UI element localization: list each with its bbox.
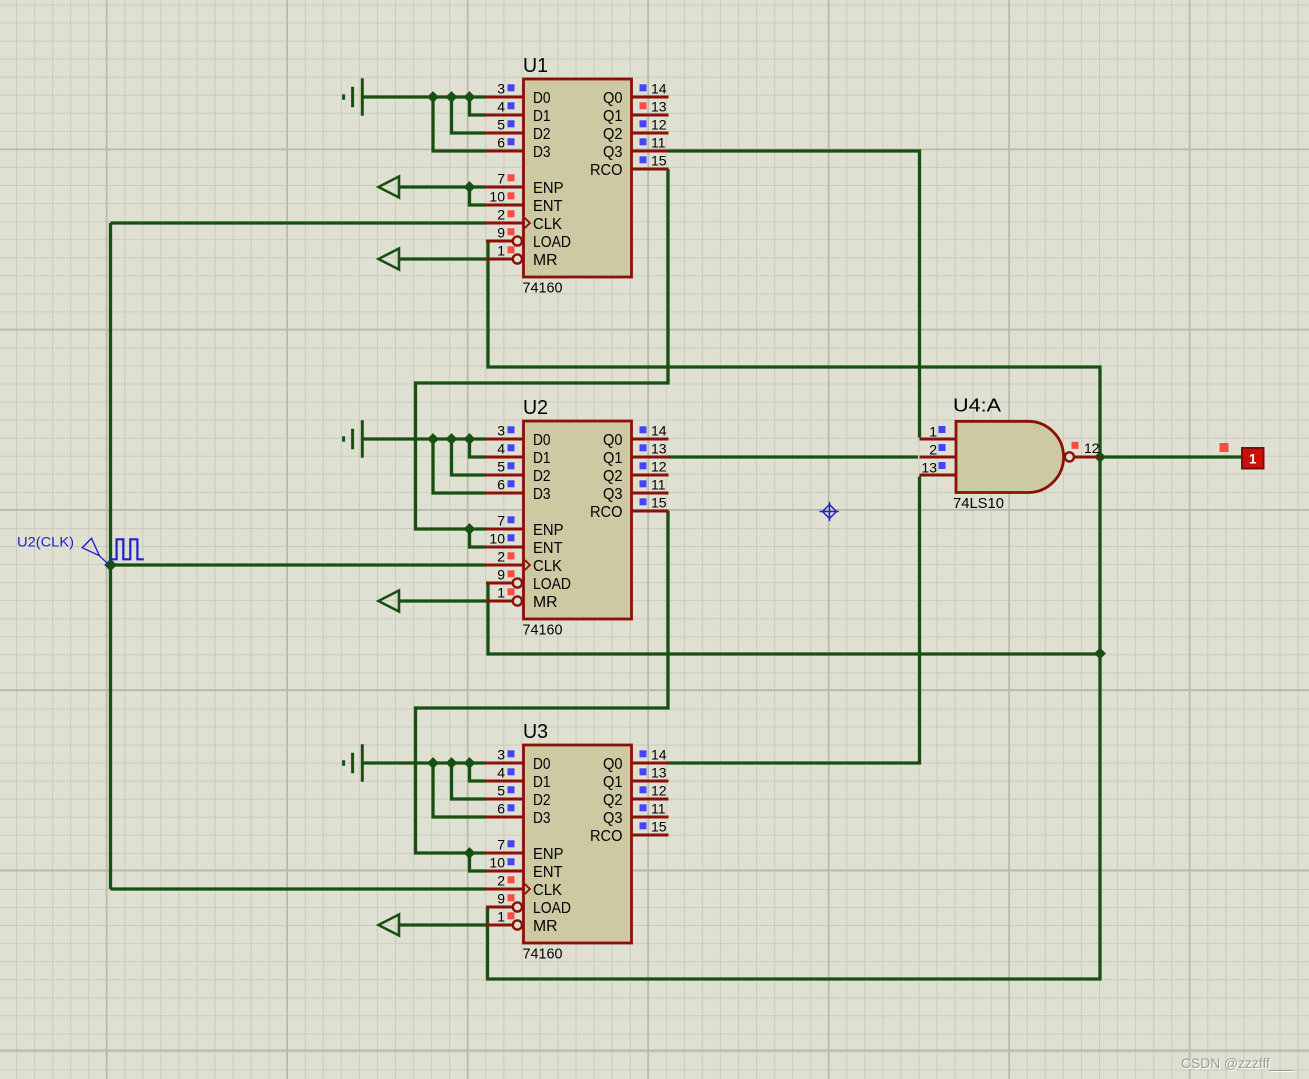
wire U3 ENT branch xyxy=(470,853,487,871)
svg-text:D1: D1 xyxy=(533,450,551,467)
reference label U1 xyxy=(523,55,548,77)
svg-text:74160: 74160 xyxy=(523,947,563,963)
pin 11 (Q3) of U1 xyxy=(632,135,669,151)
svg-text:Q2: Q2 xyxy=(603,126,623,143)
svg-text:14: 14 xyxy=(651,747,667,763)
svg-text:5: 5 xyxy=(497,459,505,475)
pin 9 (LOAD) of U3 xyxy=(486,891,522,912)
pin 2 (CLK) of U1 xyxy=(486,207,524,223)
svg-text:10: 10 xyxy=(489,855,505,871)
svg-text:3: 3 xyxy=(497,747,505,763)
wire U1 ENP net xyxy=(399,185,486,188)
junction preset net U2 b xyxy=(446,433,458,445)
pin 5 (D2) of U1 xyxy=(486,117,524,133)
svg-text:ENP: ENP xyxy=(533,522,564,539)
junction preset net U3 b xyxy=(446,757,458,769)
svg-text:LOAD: LOAD xyxy=(533,900,571,917)
wire U2 MR net xyxy=(399,599,486,602)
wire U2 D1 branch xyxy=(470,439,487,457)
pin 3 (D0) of U2 xyxy=(486,423,524,439)
junction preset net U1 a xyxy=(427,91,439,103)
value label 74LS10 xyxy=(953,495,1004,512)
svg-text:1: 1 xyxy=(929,423,937,439)
svg-text:12: 12 xyxy=(1084,440,1100,456)
input terminal (arrow) U1 ENP/ENT xyxy=(379,177,400,198)
svg-text:D2: D2 xyxy=(533,126,551,143)
junction preset net U1 b xyxy=(446,91,458,103)
junction U3 ENP/ENT tee xyxy=(464,847,476,859)
svg-text:2: 2 xyxy=(497,549,505,565)
svg-text:D0: D0 xyxy=(533,432,551,449)
svg-text:10: 10 xyxy=(489,531,505,547)
svg-text:3: 3 xyxy=(497,423,505,439)
pin 6 (D3) of U3 xyxy=(486,801,524,817)
svg-text:U4:A: U4:A xyxy=(953,396,1001,416)
svg-text:74160: 74160 xyxy=(523,623,563,639)
pin 10 (ENT) of U1 xyxy=(486,189,524,205)
svg-text:4: 4 xyxy=(497,765,505,781)
svg-text:12: 12 xyxy=(651,459,667,475)
pin 7 (ENP) of U3 xyxy=(486,837,524,853)
svg-text:1: 1 xyxy=(497,585,505,601)
svg-text:ENT: ENT xyxy=(533,198,563,215)
watermark xyxy=(1181,1055,1293,1071)
pin 14 (Q0) of U3 xyxy=(632,747,669,763)
svg-text:CSDN @zzzfff___: CSDN @zzzfff___ xyxy=(1181,1055,1293,1071)
pin 4 (D1) of U3 xyxy=(486,765,524,781)
svg-text:Q1: Q1 xyxy=(603,108,623,125)
U4 pin 1 xyxy=(920,423,957,439)
svg-text:1: 1 xyxy=(1249,451,1257,466)
wire U2 D3 branch xyxy=(433,439,486,493)
wire CLK to U3 xyxy=(111,887,487,890)
counter U2 (74160) body xyxy=(524,421,632,619)
pin 1 (MR) of U1 xyxy=(486,243,522,264)
junction NAND output node xyxy=(1094,451,1106,463)
svg-text:7: 7 xyxy=(497,837,505,853)
junction CLK source xyxy=(104,559,117,572)
svg-text:1: 1 xyxy=(497,909,505,925)
svg-text:CLK: CLK xyxy=(533,558,562,575)
wire U1 RCO to U2 ENP xyxy=(416,169,669,529)
pin 9 (LOAD) of U2 xyxy=(486,567,522,588)
svg-text:D1: D1 xyxy=(533,774,551,791)
svg-text:2: 2 xyxy=(497,873,505,889)
svg-text:11: 11 xyxy=(651,801,666,817)
input terminal (arrow) U1 MR xyxy=(379,249,400,270)
value label 74160 of U2 xyxy=(523,623,563,639)
svg-text:Q1: Q1 xyxy=(603,774,623,791)
pin 3 (D0) of U3 xyxy=(486,747,524,763)
svg-text:15: 15 xyxy=(651,153,667,169)
svg-text:2: 2 xyxy=(929,441,937,457)
svg-text:D2: D2 xyxy=(533,792,551,809)
clock pointer triangle xyxy=(82,538,108,564)
clock waveform glyph xyxy=(109,539,144,559)
svg-text:12: 12 xyxy=(651,783,667,799)
svg-text:Q1: Q1 xyxy=(603,450,623,467)
pin 7 (ENP) of U1 xyxy=(486,171,524,187)
svg-text:15: 15 xyxy=(651,495,667,511)
wire U4 output to U1/U3 LOAD loop xyxy=(488,241,1101,979)
pin 11 (Q3) of U2 xyxy=(632,477,669,493)
junction U2 ENP/ENT tee xyxy=(464,523,476,535)
pin 4 (D1) of U2 xyxy=(486,441,524,457)
wire U1 Q3 to U4 pin 1 xyxy=(668,151,920,438)
input terminal (arrow) U3 MR xyxy=(379,915,400,936)
junction preset net U3 a xyxy=(427,757,439,769)
wire U2 LOAD branch xyxy=(488,583,1100,654)
wire U2 D0 preset net xyxy=(363,437,486,440)
svg-text:14: 14 xyxy=(651,423,667,439)
svg-text:LOAD: LOAD xyxy=(533,576,571,593)
pin 13 (Q1) of U1 xyxy=(632,99,669,115)
ground symbol for U3 data inputs xyxy=(344,744,363,782)
junction preset net U1 c xyxy=(464,91,476,103)
svg-text:CLK: CLK xyxy=(533,216,562,233)
wire CLK vertical trunk xyxy=(109,223,112,889)
wire U1 ENT branch xyxy=(470,187,487,205)
svg-text:U2: U2 xyxy=(523,397,548,419)
svg-text:MR: MR xyxy=(533,918,558,935)
svg-text:7: 7 xyxy=(497,513,505,529)
svg-text:D2: D2 xyxy=(533,468,551,485)
pin 6 (D3) of U2 xyxy=(486,477,524,493)
svg-text:13: 13 xyxy=(651,441,667,457)
reference label U2 xyxy=(523,397,548,419)
wire U2 D2 branch xyxy=(452,439,487,475)
svg-text:Q2: Q2 xyxy=(603,468,623,485)
wire U1 D2 branch xyxy=(452,97,487,133)
svg-text:D3: D3 xyxy=(533,486,551,503)
pin 9 (LOAD) of U1 xyxy=(486,225,522,246)
wire U3 Q0 to U4 pin 13 xyxy=(668,477,920,764)
pin 2 (CLK) of U3 xyxy=(486,873,524,889)
pin 15 (RCO) of U1 xyxy=(632,153,669,169)
svg-text:10: 10 xyxy=(489,189,505,205)
pin 5 (D2) of U3 xyxy=(486,783,524,799)
svg-text:74LS10: 74LS10 xyxy=(953,495,1004,512)
svg-text:RCO: RCO xyxy=(590,828,623,845)
junction preset net U3 c xyxy=(464,757,476,769)
svg-text:13: 13 xyxy=(651,765,667,781)
ground symbol for U1 data inputs xyxy=(344,78,363,116)
pin 10 (ENT) of U2 xyxy=(486,531,524,547)
svg-text:Q2: Q2 xyxy=(603,792,623,809)
svg-text:MR: MR xyxy=(533,594,558,611)
reference label U3 xyxy=(523,721,548,743)
reference label U4:A xyxy=(953,396,1001,416)
svg-text:RCO: RCO xyxy=(590,162,623,179)
svg-text:2: 2 xyxy=(497,207,505,223)
svg-text:U1: U1 xyxy=(523,55,548,77)
svg-text:13: 13 xyxy=(921,459,937,475)
svg-text:D1: D1 xyxy=(533,108,551,125)
pin 12 (Q2) of U2 xyxy=(632,459,669,475)
wire U1 MR net xyxy=(399,257,486,260)
junction preset net U2 c xyxy=(464,433,476,445)
wire U1 D3 branch xyxy=(433,97,486,151)
svg-text:6: 6 xyxy=(497,135,505,151)
svg-text:D3: D3 xyxy=(533,144,551,161)
wire U3 D0 preset net xyxy=(363,761,486,764)
svg-text:Q0: Q0 xyxy=(603,756,623,773)
svg-text:4: 4 xyxy=(497,441,505,457)
counter U1 (74160) body xyxy=(524,79,632,277)
svg-text:LOAD: LOAD xyxy=(533,234,571,251)
svg-text:Q0: Q0 xyxy=(603,90,623,107)
pin 14 (Q0) of U2 xyxy=(632,423,669,439)
pin 3 (D0) of U1 xyxy=(486,81,524,97)
NAND gate U4:A (74LS10) body xyxy=(956,421,1074,492)
pin 13 (Q1) of U2 xyxy=(632,441,669,457)
svg-text:U2(CLK): U2(CLK) xyxy=(17,534,74,550)
wire U3 MR net xyxy=(399,923,486,926)
svg-text:4: 4 xyxy=(497,99,505,115)
junction preset net U2 a xyxy=(427,433,439,445)
svg-text:ENT: ENT xyxy=(533,864,563,881)
pin 12 (Q2) of U1 xyxy=(632,117,669,133)
pin 7 (ENP) of U2 xyxy=(486,513,524,529)
wire U2 Q1 to U4 pin 2 xyxy=(668,455,918,458)
value label 74160 of U3 xyxy=(523,947,563,963)
U4 pin 2 xyxy=(920,441,957,457)
value label 74160 of U1 xyxy=(523,281,563,297)
svg-text:9: 9 xyxy=(497,567,505,583)
svg-text:Q3: Q3 xyxy=(603,810,623,827)
pin 15 (RCO) of U2 xyxy=(632,495,669,511)
wire U3 D1 branch xyxy=(470,763,487,781)
counter U3 (74160) body xyxy=(524,745,632,943)
svg-text:Q0: Q0 xyxy=(603,432,623,449)
svg-text:U3: U3 xyxy=(523,721,548,743)
logic probe showing 1 xyxy=(1220,443,1264,469)
svg-text:1: 1 xyxy=(497,243,505,259)
pin 12 (Q2) of U3 xyxy=(632,783,669,799)
wire U3 D2 branch xyxy=(452,763,487,799)
svg-text:D0: D0 xyxy=(533,90,551,107)
pin 2 (CLK) of U2 xyxy=(486,549,524,565)
wire U2 ENT branch xyxy=(470,529,487,547)
pin 1 (MR) of U2 xyxy=(486,585,522,606)
svg-text:3: 3 xyxy=(497,81,505,97)
svg-text:11: 11 xyxy=(651,135,666,151)
svg-text:5: 5 xyxy=(497,783,505,799)
wire CLK to U2 xyxy=(111,563,487,566)
svg-text:15: 15 xyxy=(651,819,667,835)
wire U2 RCO to U3 ENP xyxy=(416,511,669,853)
ground symbol for U2 data inputs xyxy=(344,420,363,458)
svg-text:6: 6 xyxy=(497,477,505,493)
pin 13 (Q1) of U3 xyxy=(632,765,669,781)
svg-text:14: 14 xyxy=(651,81,667,97)
clock generator label U2(CLK) xyxy=(17,534,74,550)
pin 4 (D1) of U1 xyxy=(486,99,524,115)
svg-text:D0: D0 xyxy=(533,756,551,773)
U4 pin 13 xyxy=(920,459,957,475)
node CLK distribution xyxy=(0,0,1,1)
svg-text:6: 6 xyxy=(497,801,505,817)
svg-text:D3: D3 xyxy=(533,810,551,827)
svg-text:Q3: Q3 xyxy=(603,144,623,161)
pin 1 (MR) of U3 xyxy=(486,909,522,930)
svg-text:MR: MR xyxy=(533,252,558,269)
svg-text:RCO: RCO xyxy=(590,504,623,521)
wire CLK to U1 xyxy=(111,221,487,224)
svg-text:11: 11 xyxy=(651,477,666,493)
svg-text:12: 12 xyxy=(651,117,667,133)
svg-text:5: 5 xyxy=(497,117,505,133)
junction LOAD net node xyxy=(1094,648,1106,660)
svg-text:CLK: CLK xyxy=(533,882,562,899)
svg-text:ENP: ENP xyxy=(533,180,564,197)
wire U3 D3 branch xyxy=(433,763,486,817)
junction U1 ENP/ENT tee xyxy=(464,181,476,193)
svg-text:74160: 74160 xyxy=(523,281,563,297)
origin marker xyxy=(820,502,839,521)
pin 14 (Q0) of U1 xyxy=(632,81,669,97)
pin 11 (Q3) of U3 xyxy=(632,801,669,817)
svg-text:7: 7 xyxy=(497,171,505,187)
U4 pin 12 (output) xyxy=(1072,440,1101,457)
input terminal (arrow) U2 MR xyxy=(379,591,400,612)
svg-text:9: 9 xyxy=(497,225,505,241)
pin 10 (ENT) of U3 xyxy=(486,855,524,871)
svg-text:ENT: ENT xyxy=(533,540,563,557)
svg-text:Q3: Q3 xyxy=(603,486,623,503)
svg-text:ENP: ENP xyxy=(533,846,564,863)
wire U1 D1 branch xyxy=(470,97,487,115)
svg-text:13: 13 xyxy=(651,99,667,115)
pin 6 (D3) of U1 xyxy=(486,135,524,151)
wire U4 output to probe xyxy=(1100,455,1242,458)
wire U1 D0 preset net xyxy=(363,95,486,98)
pin 15 (RCO) of U3 xyxy=(632,819,669,835)
pin 5 (D2) of U2 xyxy=(486,459,524,475)
svg-text:9: 9 xyxy=(497,891,505,907)
